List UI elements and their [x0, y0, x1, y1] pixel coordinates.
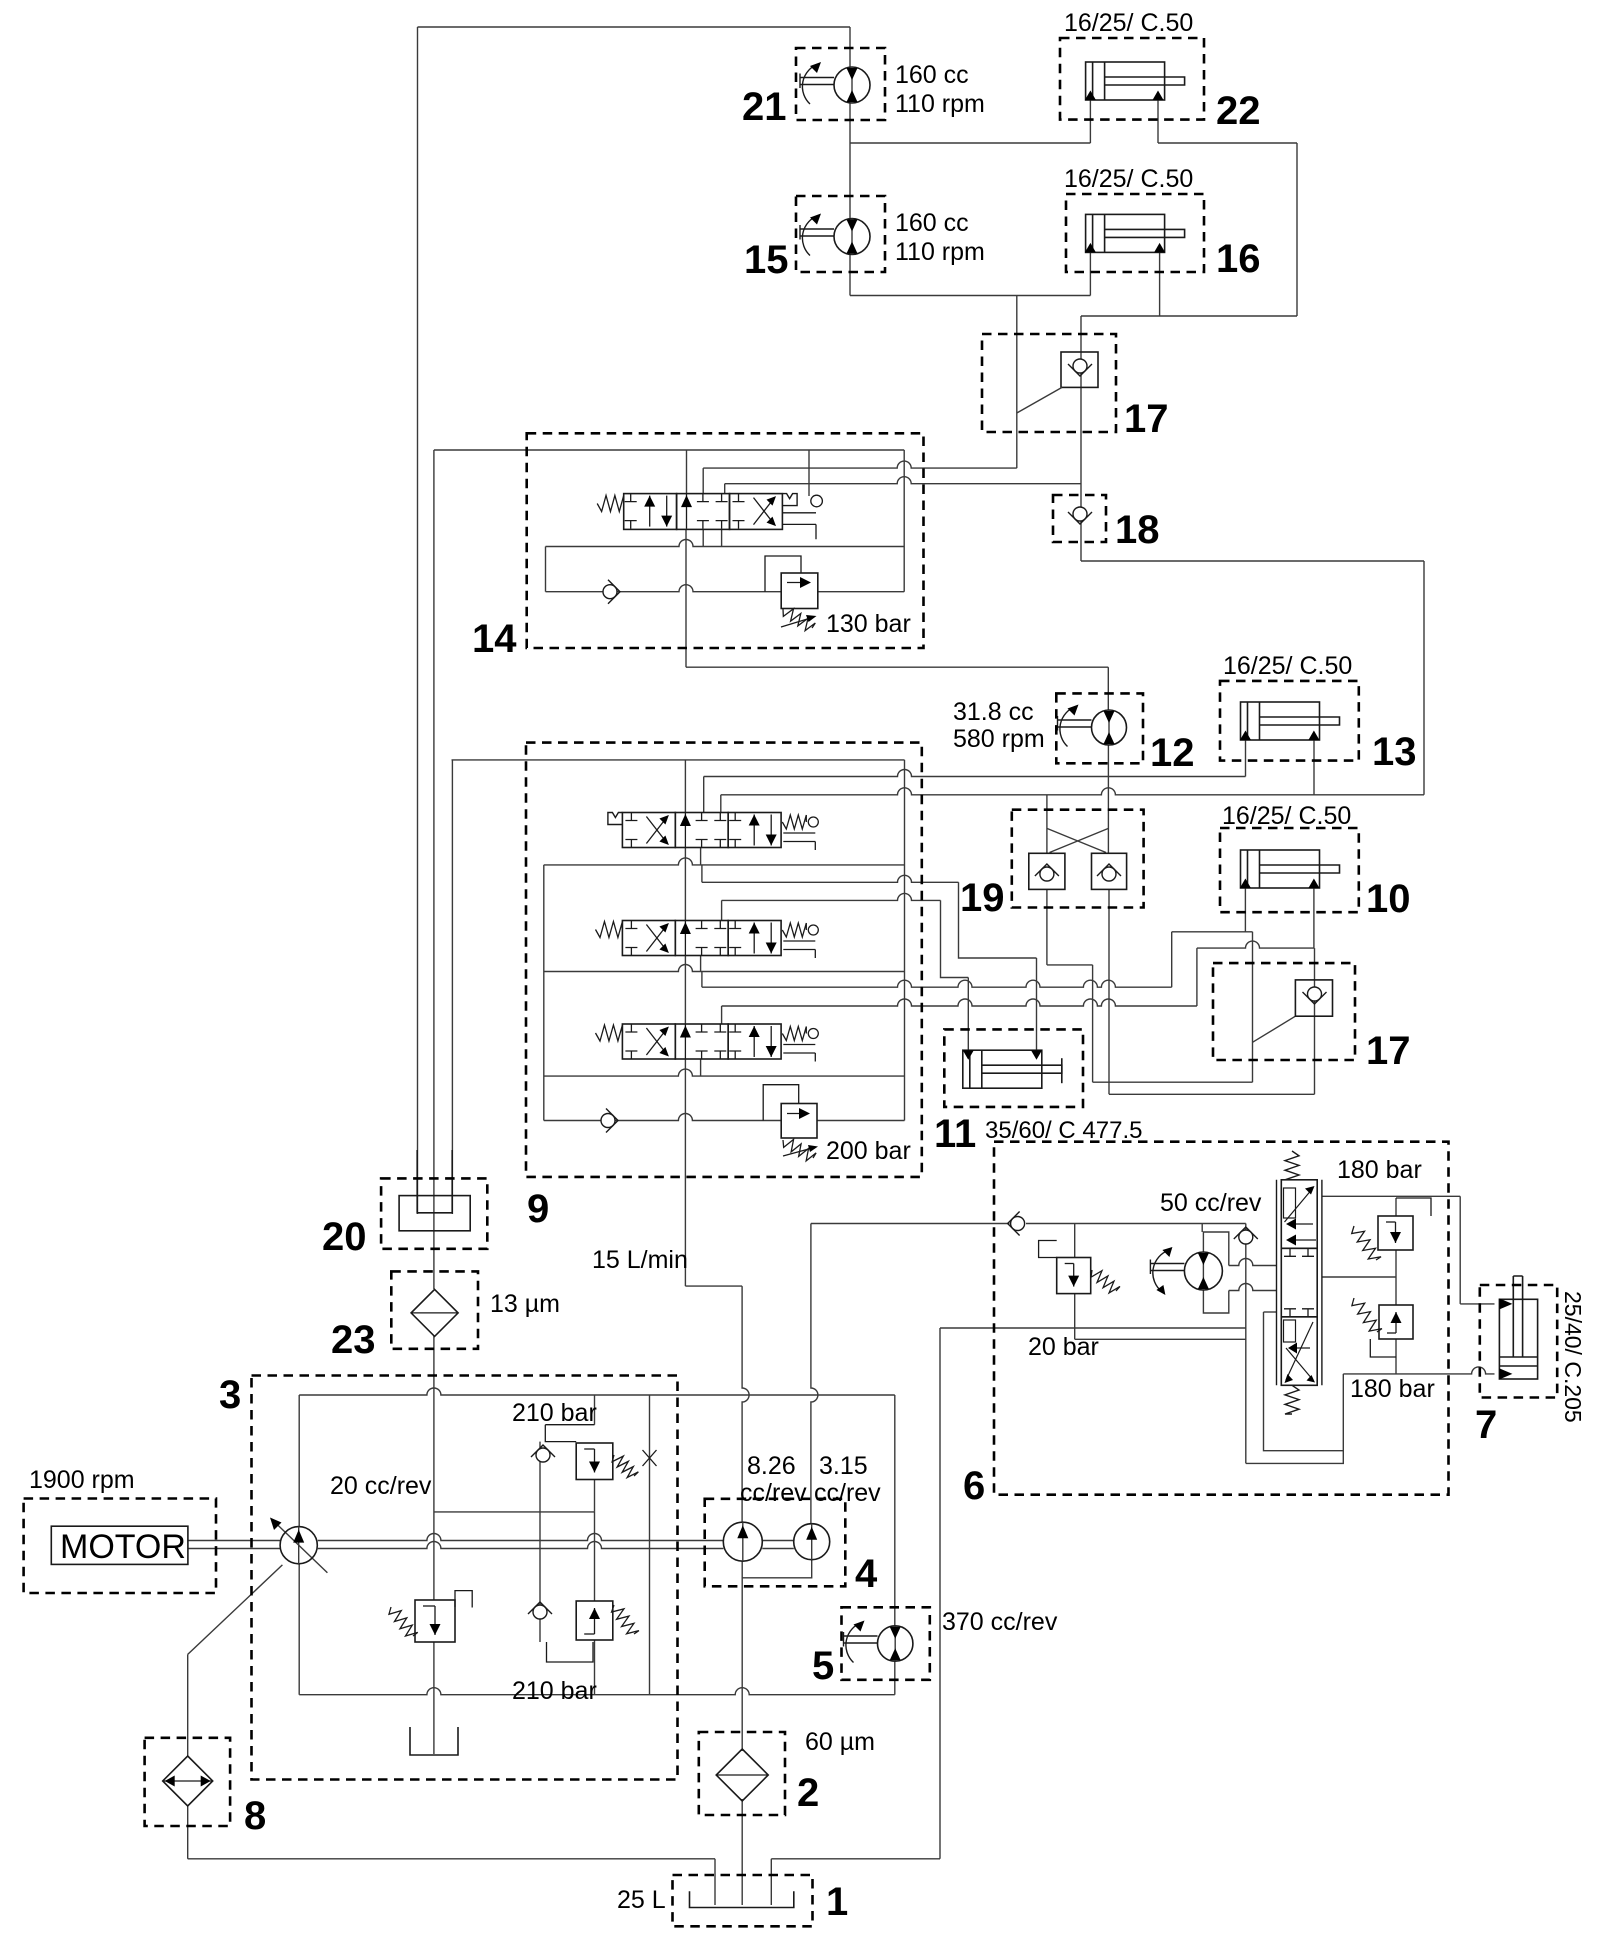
wire: pump 4 right outlet to block 6 inlet: [811, 1223, 1010, 1225]
svg-text:MOTOR: MOTOR: [60, 1528, 186, 1566]
wire: net H2 spool2 to cylinder 11 left port: [722, 893, 941, 900]
svg-text:180 bar: 180 bar: [1337, 1156, 1422, 1184]
hydraulic motor 21 (160 cc 110 rpm): [834, 67, 870, 103]
gear pump 4 right (3.15 cc/rev): [794, 1524, 830, 1560]
proportional directional valve in block 6: [1281, 1180, 1317, 1249]
enclosure of cylinder 10: [1220, 828, 1359, 912]
enclosure of coupler 20: [381, 1178, 487, 1248]
relief valve 180 bar lower: [1379, 1305, 1413, 1339]
check valve in block 6 column: [1239, 1230, 1253, 1244]
hydraulic motor 15 (160 cc 110 rpm): [834, 219, 870, 255]
wire: block 3 pressure rail out to motor 5: [299, 1388, 895, 1395]
enclosure of cylinder 16: [1066, 194, 1204, 272]
svg-text:22: 22: [1216, 89, 1261, 133]
check valve at 210 bar lower relief: [533, 1605, 547, 1619]
wire: valve 9 internal supply rail and galleries: [452, 759, 905, 761]
svg-text:16: 16: [1216, 237, 1261, 281]
gear pump 4 left (8.26 cc/rev): [723, 1522, 762, 1561]
cylinder 13 (16/25/ C.50): [1241, 702, 1320, 740]
relief valve 200 bar: [781, 1104, 817, 1139]
enclosure of pump block 3: [252, 1376, 678, 1780]
svg-text:8.26: 8.26: [747, 1452, 796, 1480]
svg-text:110 rpm: 110 rpm: [895, 90, 985, 118]
svg-text:160 cc: 160 cc: [895, 209, 969, 237]
svg-text:19: 19: [960, 876, 1005, 920]
svg-text:3.15: 3.15: [819, 1452, 868, 1480]
svg-text:9: 9: [527, 1187, 549, 1231]
wire: motor 21/15 series column: [849, 27, 851, 68]
enclosure of cylinder 7: [1480, 1285, 1557, 1398]
check valve in valve 14 return: [603, 585, 617, 599]
enclosure of check valve 17 lower: [1213, 963, 1355, 1060]
enclosure of motor 12: [1056, 693, 1143, 763]
variable pump 3 (20 cc/rev): [280, 1527, 317, 1564]
relief valve 210 bar upper: [576, 1443, 613, 1480]
wire: motor 5 port lines: [894, 1395, 896, 1626]
wire: net B1 spool1 to check 19 left, cylinder 13 right, check 18: [721, 788, 1424, 795]
enclosure of check valve 17 upper: [982, 334, 1116, 432]
pilot-operated check valve 17 lower: [1295, 980, 1332, 1016]
wire: check 19 right outlet to cylinder 10 right net: [1108, 889, 1110, 1094]
relief valve 210 bar lower: [576, 1601, 613, 1640]
return filter 23 (13 um): [411, 1289, 458, 1336]
cylinder 10 (16/25/ C.50): [1241, 850, 1320, 888]
hydraulic motor 12 (31.8 cc 580 rpm): [1092, 710, 1127, 745]
bleed valve in block 3: [643, 1450, 657, 1466]
valve block 9 spool 2: [622, 921, 675, 956]
svg-text:16/25/ C.50: 16/25/ C.50: [1223, 652, 1352, 680]
wire: cylinder 16/22 rod-end net to check 17/18 column: [1081, 315, 1297, 317]
wire: top feed from left column to motor 21: [418, 26, 851, 28]
wire: block 3 right rail: [649, 1395, 651, 1695]
wire: tank bus to block 6 return riser: [771, 1858, 940, 1860]
svg-text:210 bar: 210 bar: [512, 1677, 597, 1705]
tank symbol inside block 3: [410, 1727, 458, 1755]
svg-text:13 µm: 13 µm: [490, 1290, 560, 1318]
enclosure of cylinder 13: [1220, 681, 1359, 761]
wire: pump 4 suction header down to filter 2: [742, 1560, 812, 1578]
wire: check 19 left outlet to cylinder 10 left net: [1046, 889, 1048, 965]
svg-text:11: 11: [934, 1112, 976, 1156]
relief valve 180 bar upper: [1378, 1216, 1413, 1250]
wire: valve 9 supply line down to coupler 20: [451, 760, 453, 1214]
svg-text:110 rpm: 110 rpm: [895, 238, 985, 266]
svg-text:16/25/ C.50: 16/25/ C.50: [1064, 165, 1193, 193]
cylinder 7 (25/40/ C.205): [1499, 1299, 1537, 1379]
wire: relief 180 bar connection stubs: [1395, 1198, 1397, 1216]
wire: valve 14 P port down and over to motor 12 top: [685, 529, 687, 667]
svg-text:1900 rpm: 1900 rpm: [29, 1466, 135, 1494]
enclosure of cylinder 11: [944, 1029, 1083, 1107]
enclosure of motor 5: [842, 1607, 930, 1680]
enclosure of cylinder 22: [1060, 38, 1204, 120]
svg-text:3: 3: [219, 1373, 241, 1417]
enclosure of motor 15: [796, 196, 885, 272]
wire: net W3 spool3 to cylinder 10 right: [722, 999, 1197, 1006]
svg-text:2: 2: [797, 1771, 819, 1815]
enclosure of dual check valve 19: [1012, 810, 1144, 908]
relief valve 20 bar: [1057, 1258, 1091, 1294]
svg-text:16/25/ C.50: 16/25/ C.50: [1064, 9, 1193, 37]
svg-text:160 cc: 160 cc: [895, 61, 969, 89]
wire: valve 14 supply line down through coupler 20 to filter 23: [433, 450, 435, 1289]
svg-text:180 bar: 180 bar: [1350, 1375, 1435, 1403]
wire: block 3 relief branch rails: [594, 1395, 596, 1425]
wire: cylinder 22 right port to node x=1297: [1157, 100, 1159, 143]
enclosure of electric motor: [24, 1499, 216, 1594]
svg-text:4: 4: [855, 1552, 878, 1596]
wire: block 3 left rail / pump 3 ports: [298, 1395, 300, 1527]
svg-text:16/25/ C.50: 16/25/ C.50: [1222, 802, 1351, 830]
svg-text:cc/rev: cc/rev: [740, 1479, 807, 1507]
wire: motor 50cc port loops to valve: [1203, 1232, 1228, 1266]
wire: filter 2 to tank 1: [741, 1799, 743, 1905]
svg-text:23: 23: [331, 1318, 376, 1362]
svg-text:50 cc/rev: 50 cc/rev: [1160, 1189, 1262, 1217]
svg-text:15 L/min: 15 L/min: [592, 1246, 688, 1274]
cylinder 11 (35/60/ C 477.5): [963, 1050, 1042, 1088]
pump 3 variable displacement arrow: [272, 1520, 327, 1573]
wire: net H1 spool2 to cylinder 11 right port: [702, 875, 959, 882]
relief valve 130 bar: [781, 573, 818, 609]
enclosure of filter 23: [391, 1271, 478, 1348]
svg-text:210 bar: 210 bar: [512, 1399, 597, 1427]
svg-text:7: 7: [1475, 1403, 1497, 1447]
svg-text:1: 1: [826, 1880, 848, 1924]
enclosure of valve block 14: [527, 433, 924, 648]
svg-text:12: 12: [1150, 731, 1195, 775]
enclosure of pump group 4: [705, 1499, 846, 1587]
multi coupler 20: [399, 1196, 470, 1231]
cylinder 16 (16/25/ C.50): [1086, 214, 1165, 252]
filter/cooler 8: [163, 1756, 213, 1806]
svg-text:13: 13: [1372, 730, 1417, 774]
wire: check 19 crossed pilot lines: [1047, 828, 1106, 852]
enclosure of filter 8: [145, 1738, 231, 1826]
wire: cylinder 10 left port net with pilot to lower check 17: [1244, 888, 1246, 932]
svg-text:17: 17: [1124, 397, 1169, 441]
valve block 9 spool 3: [622, 1024, 675, 1059]
wire: filter 8 to tank bus: [187, 1806, 189, 1859]
enclosure of filter 2: [699, 1732, 785, 1815]
svg-text:21: 21: [742, 85, 787, 129]
svg-text:20 cc/rev: 20 cc/rev: [330, 1472, 432, 1500]
directional valve 14 spool: [624, 494, 677, 530]
wire: pump 3 control line to filter 8: [188, 1565, 283, 1655]
wire: valve 6 top port over to cylinder 7 top port: [1322, 1195, 1460, 1197]
electric MOTOR box: [51, 1526, 188, 1564]
pilot-operated check valve 17 upper: [1061, 352, 1098, 387]
svg-text:10: 10: [1366, 877, 1411, 921]
svg-text:20: 20: [322, 1215, 367, 1259]
wire: filter 23 to tank inside block 3: [433, 1336, 435, 1754]
hydraulic motor 50 cc/rev: [1184, 1252, 1222, 1290]
hydraulic motor 5 (370 cc/rev): [878, 1626, 913, 1661]
suction filter 2 (60 um): [716, 1749, 768, 1801]
svg-text:130 bar: 130 bar: [826, 610, 911, 638]
svg-text:20 bar: 20 bar: [1028, 1333, 1099, 1361]
shaft: MOTOR to pump 3 to pump 4: [188, 1541, 280, 1549]
wire: long left return line to coupler 20: [417, 27, 419, 1214]
svg-text:31.8 cc: 31.8 cc: [953, 698, 1034, 726]
wire: block 3 bottom gallery to motor 5 bottom: [299, 1688, 895, 1695]
wire: valve 14 internal top rail: [434, 449, 904, 451]
cylinder 22 (16/25/ C.50): [1086, 62, 1165, 100]
svg-text:8: 8: [244, 1794, 266, 1838]
svg-text:35/60/ C 477.5: 35/60/ C 477.5: [985, 1117, 1142, 1144]
enclosure of valve block 9: [526, 743, 922, 1177]
wire: block 6 relief 20 bar branch: [1074, 1224, 1076, 1258]
svg-text:370 cc/rev: 370 cc/rev: [942, 1608, 1058, 1636]
wire: motor column to cylinder 22 left port: [1089, 100, 1091, 143]
check valve in valve 9 return: [601, 1114, 615, 1128]
svg-text:cc/rev: cc/rev: [814, 1479, 881, 1507]
wire: motor 12 bottom to check 19 right: [1107, 745, 1109, 854]
dual pilot-operated check valve 19: [1029, 853, 1065, 889]
svg-text:14: 14: [472, 617, 517, 661]
svg-text:200 bar: 200 bar: [826, 1137, 911, 1165]
enclosure of block 6: [994, 1142, 1449, 1495]
wire: motor 15 bottom to cylinder 16 left port and valve 14: [850, 295, 1090, 297]
check valve 18: [1073, 507, 1087, 521]
wire: block 6 column down to cylinder 7 bottom port: [1245, 1224, 1247, 1464]
check valve at block 6 inlet: [1011, 1217, 1025, 1231]
enclosure of tank 1: [673, 1875, 813, 1926]
unloading relief valve in block 3: [415, 1600, 455, 1642]
svg-text:15: 15: [744, 238, 789, 282]
svg-text:18: 18: [1115, 508, 1160, 552]
valve block 9 spool 1: [622, 813, 675, 848]
svg-text:60 µm: 60 µm: [805, 1728, 875, 1756]
svg-text:17: 17: [1366, 1029, 1411, 1073]
svg-text:5: 5: [812, 1644, 834, 1688]
wire: net W1 spool3 to cylinder 10 left: [702, 980, 1172, 987]
tank 1 (25 L): [690, 1891, 794, 1907]
wire: valve 9 center feed down to pump 4 left: [685, 1285, 742, 1287]
wire: valve 14 internal return loop: [546, 540, 905, 547]
enclosure of motor 21: [796, 48, 885, 120]
enclosure of check valve 18: [1053, 495, 1106, 542]
check valve at 210 bar upper relief: [536, 1448, 550, 1462]
svg-text:25 L: 25 L: [617, 1886, 666, 1914]
svg-text:6: 6: [963, 1464, 985, 1508]
wire: net A1 spool1 to motor 12 junction and cylinder 13 left: [704, 770, 1246, 777]
wire: cylinder 10 right port net through lower check 17: [1197, 941, 1315, 948]
svg-text:25/40/ C.205: 25/40/ C.205: [1560, 1291, 1586, 1423]
svg-text:580 rpm: 580 rpm: [953, 725, 1045, 753]
